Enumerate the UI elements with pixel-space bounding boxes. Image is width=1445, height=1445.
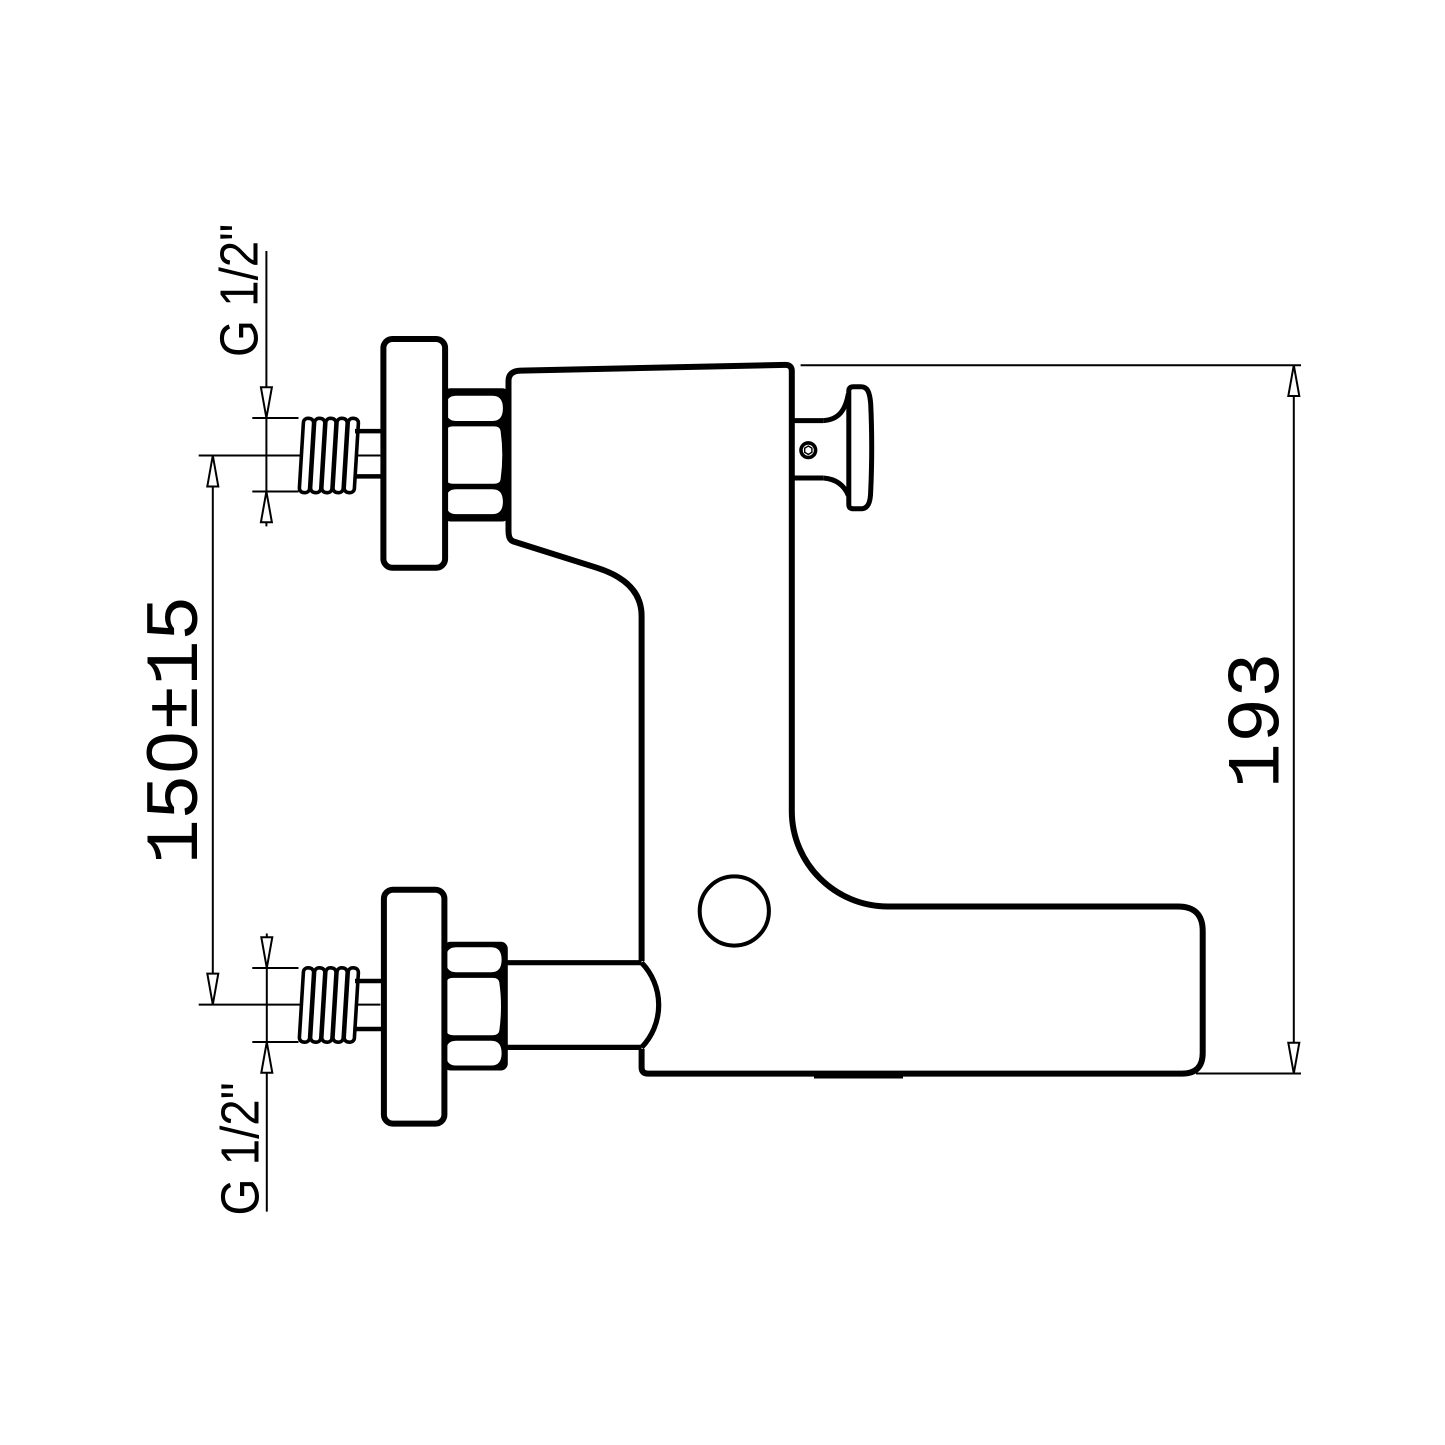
(patch over mono zero dot) xyxy=(162,745,183,761)
svg-text:193: 193 xyxy=(1216,653,1302,789)
faucet body outline xyxy=(509,365,1203,1074)
dimension 193 line xyxy=(1293,365,1295,1073)
svg-text:150±15: 150±15 xyxy=(134,596,220,864)
dimension G1/2 top tick upper xyxy=(252,417,298,419)
handle stem bottom xyxy=(792,476,823,481)
top pipe thread (coil) xyxy=(299,418,359,493)
bottom hex nut xyxy=(444,942,508,1071)
handle stem top xyxy=(792,418,823,423)
pipe end cap arc xyxy=(642,963,659,1048)
dimension G1/2 top arrow down xyxy=(261,387,272,418)
dimension G1/2 top line xyxy=(265,251,267,526)
center line top inlet axis xyxy=(199,455,381,457)
top hex nut xyxy=(444,388,510,521)
handle knob cap xyxy=(849,387,872,509)
svg-text:G 1/2": G 1/2" xyxy=(210,1082,271,1215)
dimension G1/2 bottom line xyxy=(266,934,268,1212)
svg-text:G 1/2": G 1/2" xyxy=(209,224,270,357)
pipe walls xyxy=(503,960,642,965)
bottom wall flange xyxy=(384,890,445,1124)
dimension 150±15 arrow down xyxy=(207,974,218,1005)
dimension G1/2 bottom tick upper xyxy=(252,967,298,969)
handle screw xyxy=(801,443,816,458)
bottom supply pipe into body xyxy=(508,961,648,1049)
dimension 150±15 arrow up xyxy=(207,456,218,487)
bottom pipe thread (coil) xyxy=(299,968,359,1043)
dimension 193 extension line bottom xyxy=(1196,1073,1301,1075)
dimension 150±15 line xyxy=(212,456,214,1005)
dimension G1/2 bottom arrow up xyxy=(261,1042,272,1073)
top neck between thread and flange xyxy=(355,431,381,476)
dimension 193 extension line top xyxy=(801,364,1301,366)
aerator outlet under spout xyxy=(814,1076,903,1079)
cartridge cap circle on body xyxy=(700,876,769,945)
handle flare top xyxy=(823,394,848,421)
bottom neck between thread and flange xyxy=(355,981,381,1029)
dimension G1/2 top arrow up xyxy=(261,492,272,523)
top wall flange xyxy=(383,339,445,568)
dimension 193 arrow up xyxy=(1288,365,1299,396)
dimension G1/2 bottom arrow down xyxy=(261,937,272,968)
center line bottom inlet axis xyxy=(199,1004,381,1006)
handle flare bottom xyxy=(823,478,848,496)
dimension G1/2 top tick lower xyxy=(252,491,298,493)
dimension G1/2 bottom tick lower xyxy=(252,1041,298,1043)
dimension 193 arrow down xyxy=(1288,1043,1299,1074)
